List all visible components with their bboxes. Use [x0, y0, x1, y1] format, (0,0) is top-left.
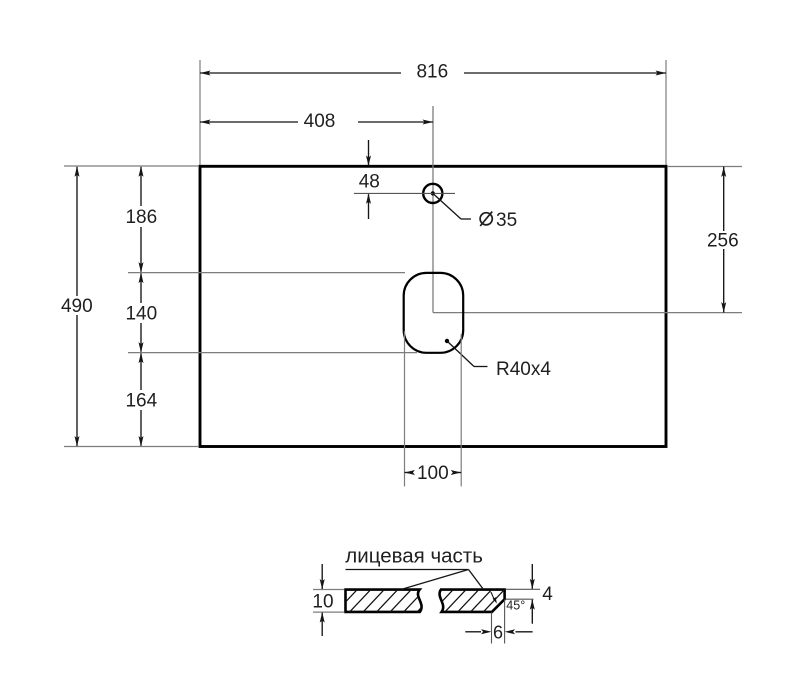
- label 45° chamfer: [491, 592, 495, 600]
- dimension 140: [139, 273, 144, 284]
- dimension 10 (panel thickness): [313, 589, 344, 591]
- dimension 408 top: [200, 121, 298, 123]
- dimension 100 (sink cutout width): [405, 470, 416, 475]
- svg-text:816: 816: [416, 62, 448, 83]
- leader and label ø35: [433, 193, 461, 219]
- svg-text:256: 256: [707, 231, 739, 252]
- faucet hole circle ø35: [423, 184, 442, 203]
- sink cutout rounded rectangle R40: [404, 273, 464, 353]
- dimension 816 top: [199, 60, 201, 165]
- dimension 490 left overall: [64, 165, 199, 167]
- svg-text:490: 490: [61, 296, 93, 317]
- dimension 186: [140, 167, 142, 206]
- dimension 48 (hole offset from top edge): [368, 140, 370, 165]
- svg-text:408: 408: [304, 111, 336, 132]
- dimension 256 right side: [667, 166, 742, 168]
- svg-text:186: 186: [125, 207, 157, 228]
- svg-text:10: 10: [312, 592, 333, 613]
- leader and label R40x4 (sink cutout radius): [445, 339, 449, 343]
- dimension 6 (chamfer width): [491, 612, 493, 643]
- svg-text:140: 140: [125, 304, 157, 325]
- centerline vertical (faucet axis): [432, 106, 434, 313]
- centerline elbow to right (sink center level): [433, 312, 742, 314]
- extension lines sink width: [404, 331, 406, 486]
- faucet hole horizontal centerline: [354, 192, 455, 194]
- svg-text:6: 6: [493, 622, 503, 642]
- svg-text:45°: 45°: [506, 599, 525, 613]
- svg-text:лицевая часть: лицевая часть: [345, 545, 483, 568]
- extension lines sink top/bottom tangents: [128, 272, 405, 274]
- section left piece outline: [346, 590, 422, 612]
- svg-text:100: 100: [417, 463, 449, 484]
- section right piece outline: [440, 590, 505, 612]
- dimension 164: [139, 353, 144, 364]
- svg-text:R40x4: R40x4: [496, 359, 551, 380]
- dimension 4 (edge height): [506, 588, 540, 590]
- countertop outline (top view 816x490): [200, 166, 666, 446]
- svg-text:35: 35: [496, 210, 517, 231]
- svg-text:164: 164: [125, 391, 157, 412]
- svg-text:4: 4: [542, 584, 553, 605]
- svg-text:48: 48: [359, 172, 380, 193]
